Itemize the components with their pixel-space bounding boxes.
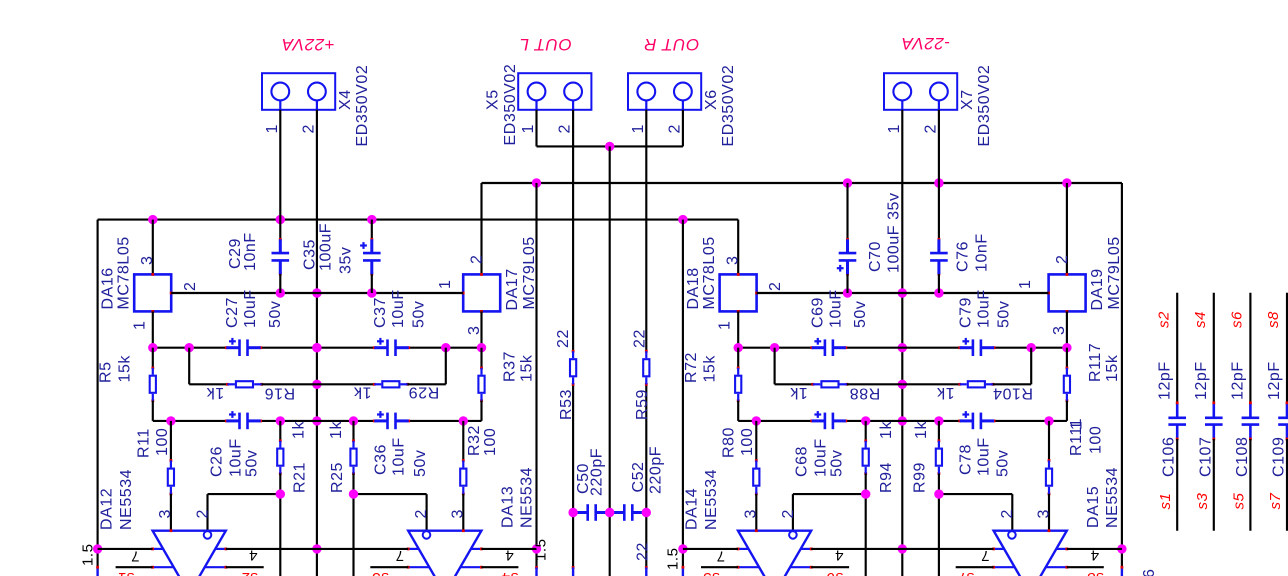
wire DA18 pin1 xyxy=(737,311,739,347)
wire R29 loop corner xyxy=(408,348,446,385)
svg-text:NE5534: NE5534 xyxy=(1104,467,1121,528)
wire gnd to R29 xyxy=(317,383,374,385)
net label +22VA xyxy=(281,35,334,54)
svg-text:C108: C108 xyxy=(1234,437,1251,477)
label C106 xyxy=(1155,311,1177,510)
label C35 xyxy=(301,223,354,274)
svg-text:C69: C69 xyxy=(810,297,827,328)
label C50 xyxy=(575,448,606,496)
label C78 xyxy=(958,437,1012,477)
svg-text:NE5534: NE5534 xyxy=(118,469,135,530)
svg-text:s8: s8 xyxy=(1265,311,1282,328)
svg-text:s7: s7 xyxy=(957,569,974,576)
junctions row421 left xyxy=(166,416,468,425)
junction OUT bus xyxy=(605,142,614,151)
svg-text:C76: C76 xyxy=(954,241,971,272)
capacitor C106 12pF xyxy=(1168,293,1186,531)
svg-text:12pF: 12pF xyxy=(1156,361,1173,400)
svg-text:1k: 1k xyxy=(206,384,224,401)
junctions ground line left xyxy=(312,288,321,553)
resistor R5 15k xyxy=(150,348,171,421)
DA12 pin numbers 3 2 xyxy=(157,509,212,518)
svg-text:50v: 50v xyxy=(243,450,260,477)
label R37 xyxy=(501,351,535,382)
wire -22V right frame drop xyxy=(1121,183,1124,576)
svg-text:1: 1 xyxy=(131,321,148,330)
svg-text:DA13: DA13 xyxy=(499,486,516,528)
wire DA12 pin4 to DA13 pin7 xyxy=(226,548,408,550)
resistor R21 1k xyxy=(277,421,283,576)
resistor R99 1k xyxy=(936,421,942,576)
wire R16 loop corner xyxy=(189,348,227,385)
net labels s1 s2 xyxy=(117,569,257,576)
wire X4.1 to +22V bus xyxy=(279,110,281,220)
svg-text:2: 2 xyxy=(557,124,574,133)
label DA14 xyxy=(684,469,721,530)
capacitor C52 220pF xyxy=(608,504,647,521)
label C79 xyxy=(958,289,1013,328)
svg-text:ED350V02: ED350V02 xyxy=(354,65,371,147)
svg-text:3: 3 xyxy=(466,326,483,335)
capacitor C27 10uF 50v xyxy=(225,338,262,356)
wire row348 right xyxy=(738,347,1067,349)
svg-text:3: 3 xyxy=(1051,326,1068,335)
resistor R25 1k xyxy=(350,421,356,576)
svg-text:1k: 1k xyxy=(353,384,371,401)
label DA19 xyxy=(1089,236,1123,310)
svg-text:1: 1 xyxy=(264,124,281,133)
svg-text:s2: s2 xyxy=(1155,311,1172,328)
svg-text:s1: s1 xyxy=(117,569,134,576)
label R16 xyxy=(206,384,295,402)
label DA18 xyxy=(685,236,718,309)
resistor R32 100 xyxy=(460,421,466,531)
svg-text:OUT R: OUT R xyxy=(644,35,700,54)
X4 pin numbers xyxy=(264,124,318,133)
resistor R104 1k xyxy=(958,381,994,387)
svg-text:s5: s5 xyxy=(1230,492,1247,509)
label R25 xyxy=(328,421,346,493)
junctions row421 right xyxy=(752,416,1054,425)
label X5 ED350V02 xyxy=(484,64,519,146)
svg-text:10uF: 10uF xyxy=(390,289,407,328)
svg-text:10uF: 10uF xyxy=(976,437,993,476)
svg-text:3: 3 xyxy=(1035,509,1052,518)
junctions C50 xyxy=(568,508,614,517)
svg-text:R111: R111 xyxy=(1068,418,1085,456)
svg-text:C109: C109 xyxy=(1271,437,1288,477)
net labels s5 s6 xyxy=(702,569,843,576)
svg-text:1k: 1k xyxy=(936,384,954,401)
svg-text:1.5: 1.5 xyxy=(664,547,681,570)
svg-text:R88: R88 xyxy=(849,384,880,401)
wire V+ row DA12 left xyxy=(98,548,153,550)
DA12 pin stubs xyxy=(151,548,227,569)
svg-text:s3: s3 xyxy=(371,569,388,576)
junctions GND bus right xyxy=(843,288,944,297)
X7 pin numbers xyxy=(886,124,940,133)
wire DA12 comp stubs xyxy=(116,566,264,568)
net label 26 xyxy=(1141,569,1158,576)
svg-text:ED350V02: ED350V02 xyxy=(976,65,993,147)
svg-text:R99: R99 xyxy=(911,462,928,493)
stray pin number 1 near DA19 xyxy=(1068,421,1085,430)
svg-text:10nF: 10nF xyxy=(973,233,990,272)
svg-text:X5: X5 xyxy=(484,89,501,110)
svg-text:C52: C52 xyxy=(630,461,647,492)
wire X5.1 riser xyxy=(535,110,537,147)
svg-text:7: 7 xyxy=(716,548,725,565)
label C36 xyxy=(372,437,429,477)
label DA16 xyxy=(100,236,133,309)
svg-text:R29: R29 xyxy=(408,383,439,400)
op-amp DA14 NE5534 xyxy=(738,531,811,576)
label C69 xyxy=(810,289,870,328)
label R32 xyxy=(466,425,499,456)
svg-text:X7: X7 xyxy=(959,89,976,110)
label DA13 xyxy=(499,467,535,528)
voltage regulator DA17 MC79L05 xyxy=(462,183,500,313)
capacitor C29 10nF xyxy=(272,220,290,293)
svg-text:R59: R59 xyxy=(634,389,651,420)
resistor R94 1k xyxy=(863,421,869,576)
label R94 xyxy=(878,421,895,493)
net label 1.5 right-block xyxy=(664,547,681,570)
label 22 lower net xyxy=(634,542,651,561)
DA14 pin numbers 3 2 xyxy=(742,509,797,518)
svg-text:1k: 1k xyxy=(913,421,930,439)
svg-text:R94: R94 xyxy=(878,462,895,493)
svg-text:15k: 15k xyxy=(702,355,719,383)
label X4 ED350V02 xyxy=(337,65,371,147)
junctions -22V bus xyxy=(532,178,1072,187)
wire X6.1 line with R59 xyxy=(645,110,648,576)
wire DA17 pin3 xyxy=(480,311,482,347)
svg-text:10uF: 10uF xyxy=(390,437,407,476)
svg-text:ED350V02: ED350V02 xyxy=(720,65,737,147)
label R111 xyxy=(1068,418,1105,456)
wire X4.2 ground line xyxy=(316,110,318,576)
wire DA19 pin3 xyxy=(1066,311,1068,347)
svg-text:1k: 1k xyxy=(789,384,807,401)
capacitor C36 10uF 50v xyxy=(373,411,410,429)
label C76 xyxy=(954,233,990,272)
svg-text:s4: s4 xyxy=(501,569,518,576)
svg-text:50v: 50v xyxy=(995,450,1012,477)
svg-text:X6: X6 xyxy=(703,89,720,110)
svg-text:50v: 50v xyxy=(852,301,869,328)
svg-text:100: 100 xyxy=(739,428,756,456)
wire X5.2 line with R53 xyxy=(572,110,575,576)
svg-text:3: 3 xyxy=(139,256,156,265)
wire row421 left xyxy=(171,420,463,422)
DA13 pin numbers 2 3 xyxy=(413,509,467,518)
svg-text:10uF: 10uF xyxy=(227,438,244,477)
label R5 xyxy=(98,355,134,383)
svg-text:220pF: 220pF xyxy=(588,448,605,496)
svg-text:s6: s6 xyxy=(1229,311,1246,328)
label C70 xyxy=(867,192,903,273)
svg-text:50v: 50v xyxy=(267,301,284,328)
svg-text:2: 2 xyxy=(780,509,797,518)
svg-text:10uF: 10uF xyxy=(976,289,993,328)
svg-text:s6: s6 xyxy=(826,569,843,576)
svg-text:R16: R16 xyxy=(264,384,295,401)
DA12 pin labels 7 4 xyxy=(131,547,258,565)
DA15 pin stubs xyxy=(992,548,1068,569)
label C107 xyxy=(1192,311,1214,509)
svg-text:C79: C79 xyxy=(958,297,975,328)
svg-text:12pF: 12pF xyxy=(1266,361,1283,400)
DA19 pin numbers xyxy=(1017,255,1071,335)
svg-text:DA14: DA14 xyxy=(684,488,701,530)
DA14 pin labels 7 4 xyxy=(716,547,843,565)
svg-text:s7: s7 xyxy=(1267,492,1284,509)
wire gnd to R104 xyxy=(902,383,959,385)
label X6 ED350V02 xyxy=(703,65,737,147)
svg-text:2: 2 xyxy=(300,124,317,133)
svg-text:50v: 50v xyxy=(829,450,846,477)
wire X7.1 ground line xyxy=(901,110,903,576)
wire X7.2 to -22V bus xyxy=(938,110,940,183)
label C68 xyxy=(794,438,846,477)
wire DA15 pin4 to frame xyxy=(1067,548,1122,550)
DA15 pin labels 7 4 xyxy=(981,547,1100,565)
label C109 xyxy=(1265,311,1287,510)
voltage regulator DA19 MC79L05 xyxy=(1047,183,1085,313)
svg-text:MC79L05: MC79L05 xyxy=(521,236,538,309)
wire +22V left frame drop xyxy=(96,220,99,576)
wire X6.2 riser xyxy=(682,110,684,147)
svg-text:3: 3 xyxy=(157,509,174,518)
connector X6 xyxy=(628,73,701,110)
svg-text:2: 2 xyxy=(999,509,1016,518)
svg-text:2: 2 xyxy=(194,509,211,518)
svg-text:C27: C27 xyxy=(224,297,241,328)
label R21 xyxy=(291,421,309,493)
label R53 xyxy=(555,329,575,420)
resistor R111 100 xyxy=(1046,421,1052,531)
svg-text:R80: R80 xyxy=(721,427,738,458)
svg-text:100: 100 xyxy=(1088,426,1105,454)
svg-text:12pF: 12pF xyxy=(1193,361,1210,400)
svg-text:1.5: 1.5 xyxy=(79,543,96,566)
label R104 xyxy=(936,384,1033,402)
svg-text:OUT L: OUT L xyxy=(519,35,572,54)
svg-text:1: 1 xyxy=(520,124,537,133)
svg-text:2: 2 xyxy=(666,124,683,133)
label C29 xyxy=(227,232,259,271)
svg-text:s2: s2 xyxy=(240,569,257,576)
svg-text:3: 3 xyxy=(742,509,759,518)
DA15 pin numbers 2 3 xyxy=(999,509,1053,518)
wire R16 to gnd xyxy=(262,383,317,385)
svg-text:C36: C36 xyxy=(372,444,389,475)
svg-text:DA18: DA18 xyxy=(685,267,702,309)
svg-text:2: 2 xyxy=(468,255,485,264)
resistor R29 1k xyxy=(373,381,409,387)
junctions row348 right xyxy=(734,343,1072,352)
svg-text:DA17: DA17 xyxy=(504,268,521,310)
svg-text:MC79L05: MC79L05 xyxy=(1106,236,1123,309)
resistor R72 15k xyxy=(735,348,756,421)
wire -22V bus y=183 xyxy=(482,182,1122,184)
resistor R11 100 xyxy=(168,421,174,531)
svg-text:2: 2 xyxy=(413,509,430,518)
label R59 xyxy=(631,329,651,420)
label DA15 xyxy=(1085,467,1121,528)
DA17 pin numbers xyxy=(437,255,486,335)
svg-text:2: 2 xyxy=(182,282,199,291)
capacitor C76 10nF xyxy=(930,183,948,293)
wire R88 loop corner xyxy=(775,348,813,385)
svg-text:s3: s3 xyxy=(1194,492,1211,509)
DA13 pin labels 7 4 xyxy=(395,547,514,565)
wire +22V right-block frame drop xyxy=(682,220,685,576)
wire OUT bus y=146 xyxy=(537,145,683,147)
wire GND bus left xyxy=(171,292,463,294)
connector X7 xyxy=(884,73,957,110)
svg-text:s4: s4 xyxy=(1192,311,1209,328)
op-amp input pin ticks xyxy=(170,529,1051,532)
svg-text:C70: C70 xyxy=(867,241,884,272)
capacitor C26 10uF 50v xyxy=(225,411,262,429)
wire DA13 comp stubs xyxy=(370,566,518,568)
svg-text:15k: 15k xyxy=(1104,354,1121,382)
junctions GND bus left xyxy=(276,288,377,297)
svg-text:50v: 50v xyxy=(410,301,427,328)
net labels s3 s4 xyxy=(371,569,518,576)
svg-text:1: 1 xyxy=(630,124,647,133)
wire GND bus right xyxy=(757,292,1049,294)
junctions row348 left xyxy=(148,343,486,352)
label R88 xyxy=(789,384,880,402)
junction right frame pin4 xyxy=(1117,544,1126,553)
wire R104 loop corner xyxy=(993,348,1031,385)
svg-text:DA19: DA19 xyxy=(1089,268,1106,310)
svg-text:R104: R104 xyxy=(993,384,1033,401)
svg-text:2: 2 xyxy=(1054,255,1071,264)
X5 pin numbers xyxy=(520,124,574,133)
resistor R16 1k xyxy=(226,381,263,387)
wire DA15 pin2 feedback xyxy=(939,494,1012,531)
junction DA13 pin4 xyxy=(532,544,541,553)
capacitor C37 10uF 50v xyxy=(373,338,410,356)
net label 1.5 mid xyxy=(533,538,550,561)
wire DA14 pin4 to DA15 pin7 xyxy=(811,548,993,550)
voltage regulator DA16 MC78L05 xyxy=(134,220,172,313)
svg-text:-22VA: -22VA xyxy=(901,34,950,53)
label R117 xyxy=(1087,343,1121,382)
capacitor C68 10uF 50v xyxy=(810,411,847,429)
svg-text:MC78L05: MC78L05 xyxy=(701,236,718,309)
resistor R37 15k xyxy=(463,348,484,421)
svg-text:10uF: 10uF xyxy=(242,289,259,328)
capacitor C107 12pF xyxy=(1205,293,1223,531)
svg-text:R32: R32 xyxy=(466,425,483,456)
svg-text:R11: R11 xyxy=(135,428,152,458)
capacitor C78 10uF 50v xyxy=(958,411,995,429)
svg-text:100uF: 100uF xyxy=(318,223,335,271)
label R11 xyxy=(135,428,171,458)
svg-text:7: 7 xyxy=(131,548,140,565)
wire DA14 pin2 feedback xyxy=(793,494,866,531)
net label OUT L xyxy=(519,35,572,54)
wire DA13 pin4 drop x=536.5 xyxy=(535,183,538,576)
wire DA12 pin2 feedback xyxy=(208,494,281,531)
svg-text:1k: 1k xyxy=(328,421,345,439)
svg-text:1: 1 xyxy=(1017,280,1034,289)
svg-text:100: 100 xyxy=(154,428,171,456)
svg-text:10uF: 10uF xyxy=(813,438,830,477)
resistor R53 22 xyxy=(570,350,576,386)
wire node 609 vertical xyxy=(609,146,611,576)
label R80 xyxy=(721,427,757,458)
wire DA13 pin2 feedback xyxy=(354,494,427,531)
svg-text:50v: 50v xyxy=(412,450,429,477)
capacitor C69 10uF 50v xyxy=(810,338,847,356)
capacitor C50 220pF xyxy=(572,504,611,521)
svg-text:C78: C78 xyxy=(958,444,975,475)
svg-text:2: 2 xyxy=(767,282,784,291)
label R29 xyxy=(353,383,439,400)
svg-text:12pF: 12pF xyxy=(1230,361,1247,400)
svg-text:C35: C35 xyxy=(301,239,318,270)
net label OUT R xyxy=(644,35,700,54)
net label 1.5 left xyxy=(79,543,96,566)
svg-text:22: 22 xyxy=(631,329,648,348)
svg-text:R72: R72 xyxy=(683,352,700,383)
svg-text:DA12: DA12 xyxy=(98,488,115,530)
svg-text:s8: s8 xyxy=(1086,569,1103,576)
svg-text:100: 100 xyxy=(482,428,499,456)
junction R25/DA13 pin2 xyxy=(349,489,358,498)
junction right-block frame pin7 xyxy=(678,544,687,553)
label DA12 xyxy=(98,469,135,530)
svg-text:NE5534: NE5534 xyxy=(519,467,536,528)
wire +22V bus y=220 xyxy=(98,219,739,221)
connector X4 xyxy=(262,73,335,110)
wire row348 left xyxy=(153,347,482,349)
DA18 pin numbers xyxy=(717,256,785,330)
resistor R117 15k xyxy=(1049,348,1070,421)
junction R94/DA14 pin2 xyxy=(861,489,870,498)
svg-text:C26: C26 xyxy=(208,446,225,477)
voltage regulator DA18 MC78L05 xyxy=(720,220,758,313)
junction left frame pin7 xyxy=(93,544,102,553)
wire DA15 comp stubs xyxy=(956,566,1104,568)
svg-text:C68: C68 xyxy=(794,446,811,477)
svg-text:15k: 15k xyxy=(116,355,133,383)
label C108 xyxy=(1229,311,1251,510)
wire row421 right xyxy=(756,420,1049,422)
label R72 xyxy=(683,352,719,383)
connector X5 xyxy=(518,73,591,110)
svg-text:1k: 1k xyxy=(291,421,308,439)
svg-text:3: 3 xyxy=(724,256,741,265)
op-amp DA12 NE5534 xyxy=(153,531,226,576)
DA16 pin numbers xyxy=(131,256,199,330)
svg-text:3: 3 xyxy=(450,509,467,518)
resistor R80 100 xyxy=(753,421,759,531)
svg-text:C107: C107 xyxy=(1197,437,1214,477)
label R99 xyxy=(911,421,930,493)
svg-text:26: 26 xyxy=(1141,569,1158,576)
X6 pin numbers xyxy=(630,124,684,133)
svg-text:10uF: 10uF xyxy=(828,289,845,328)
svg-text:10nF: 10nF xyxy=(242,232,259,271)
svg-text:s5: s5 xyxy=(702,569,719,576)
